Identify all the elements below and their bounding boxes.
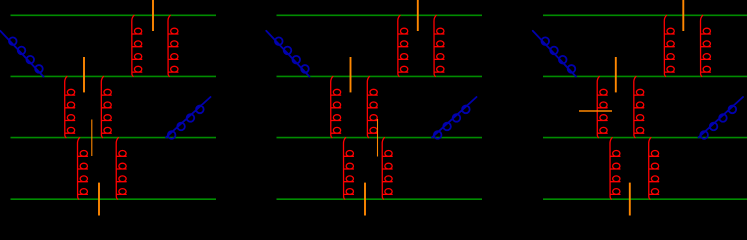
panel 2 gluon rung B-left (red) <box>331 76 341 137</box>
panel 3 gluon rung C-right (red) <box>649 138 659 200</box>
panel 1 cut mark through line 2 (orange) <box>83 57 85 92</box>
panel 3 gluon rung A-right (red) <box>700 15 710 76</box>
panel 1 outgoing gluon bottom-right (blue) <box>166 97 211 139</box>
panel 1 quark line 3 (green) <box>11 137 217 139</box>
panel 2 quark line 1 (green) <box>277 14 483 16</box>
panel 1 cut mark through line 1 (orange) <box>152 0 154 31</box>
panel 2 cut mark through line 1 (orange) <box>417 0 419 31</box>
panel 3 incoming gluon top-left (blue) <box>533 31 576 77</box>
panel 2 gluon rung A-left (red) <box>398 15 408 76</box>
panel 2 cut mark through line 4 (orange) <box>364 183 366 216</box>
panel 3 gluon rung A-left (red) <box>664 15 674 76</box>
panel 3 cut mark through line 2 (orange) <box>615 57 617 92</box>
panel 3 quark line 1 (green) <box>543 14 747 16</box>
panel 3 gluon rung C-left (red) <box>610 138 620 200</box>
panel 3 quark line 4 (green) <box>543 198 747 200</box>
panel 1 gluon rung C-right (red) <box>116 138 126 200</box>
panel 3 outgoing gluon bottom-right (blue) <box>699 97 744 139</box>
panel 2 cut mark through line 2 (orange) <box>350 57 352 92</box>
panel 1 gluon rung B-right (red) <box>101 76 111 137</box>
panel 1 gluon rung B-left (red) <box>65 76 75 137</box>
panel 2 gluon rung C-right (red) <box>382 138 392 200</box>
panel 2 gluon rung C-left (red) <box>343 138 353 200</box>
panel 1 gluon rung A-right (red) <box>168 15 178 76</box>
panel 1 gluon rung A-left (red) <box>132 15 142 76</box>
panel 3 horizontal cut mark through gluon B-left (orange) <box>579 110 612 112</box>
panel 1 quark line 4 (green) <box>11 198 217 200</box>
panel 2 gluon rung A-right (red) <box>434 15 444 76</box>
panel 2 thin cut mark through line 3 (orange) <box>377 119 379 157</box>
panel 2 quark line 3 (green) <box>277 137 483 139</box>
panel 1 incoming gluon top-left (blue) <box>0 31 43 77</box>
panel 2 quark line 2 (green) <box>277 75 483 77</box>
panel 3 quark line 2 (green) <box>543 75 747 77</box>
panel 3 cut mark through line 1 (orange) <box>682 0 684 31</box>
panel 3 quark line 3 (green) <box>543 137 747 139</box>
panel 3 cut mark through line 4 (orange) <box>629 183 631 216</box>
panel 3 gluon rung B-right (red) <box>634 76 644 137</box>
panel 2 quark line 4 (green) <box>277 198 483 200</box>
panel 3 gluon rung B-left (red) <box>597 76 607 137</box>
panel 1 quark line 2 (green) <box>11 75 217 77</box>
panel 1 cut mark through line 4 (orange) <box>98 183 100 216</box>
panel 1 thin cut mark through line 3 (orange) <box>91 120 93 157</box>
panel 2 gluon rung B-right (red) <box>367 76 377 137</box>
panel 1 quark line 1 (green) <box>11 14 217 16</box>
panel 2 outgoing gluon bottom-right (blue) <box>432 97 477 139</box>
panel 1 gluon rung C-left (red) <box>77 138 87 200</box>
panel 2 incoming gluon top-left (blue) <box>266 31 309 77</box>
